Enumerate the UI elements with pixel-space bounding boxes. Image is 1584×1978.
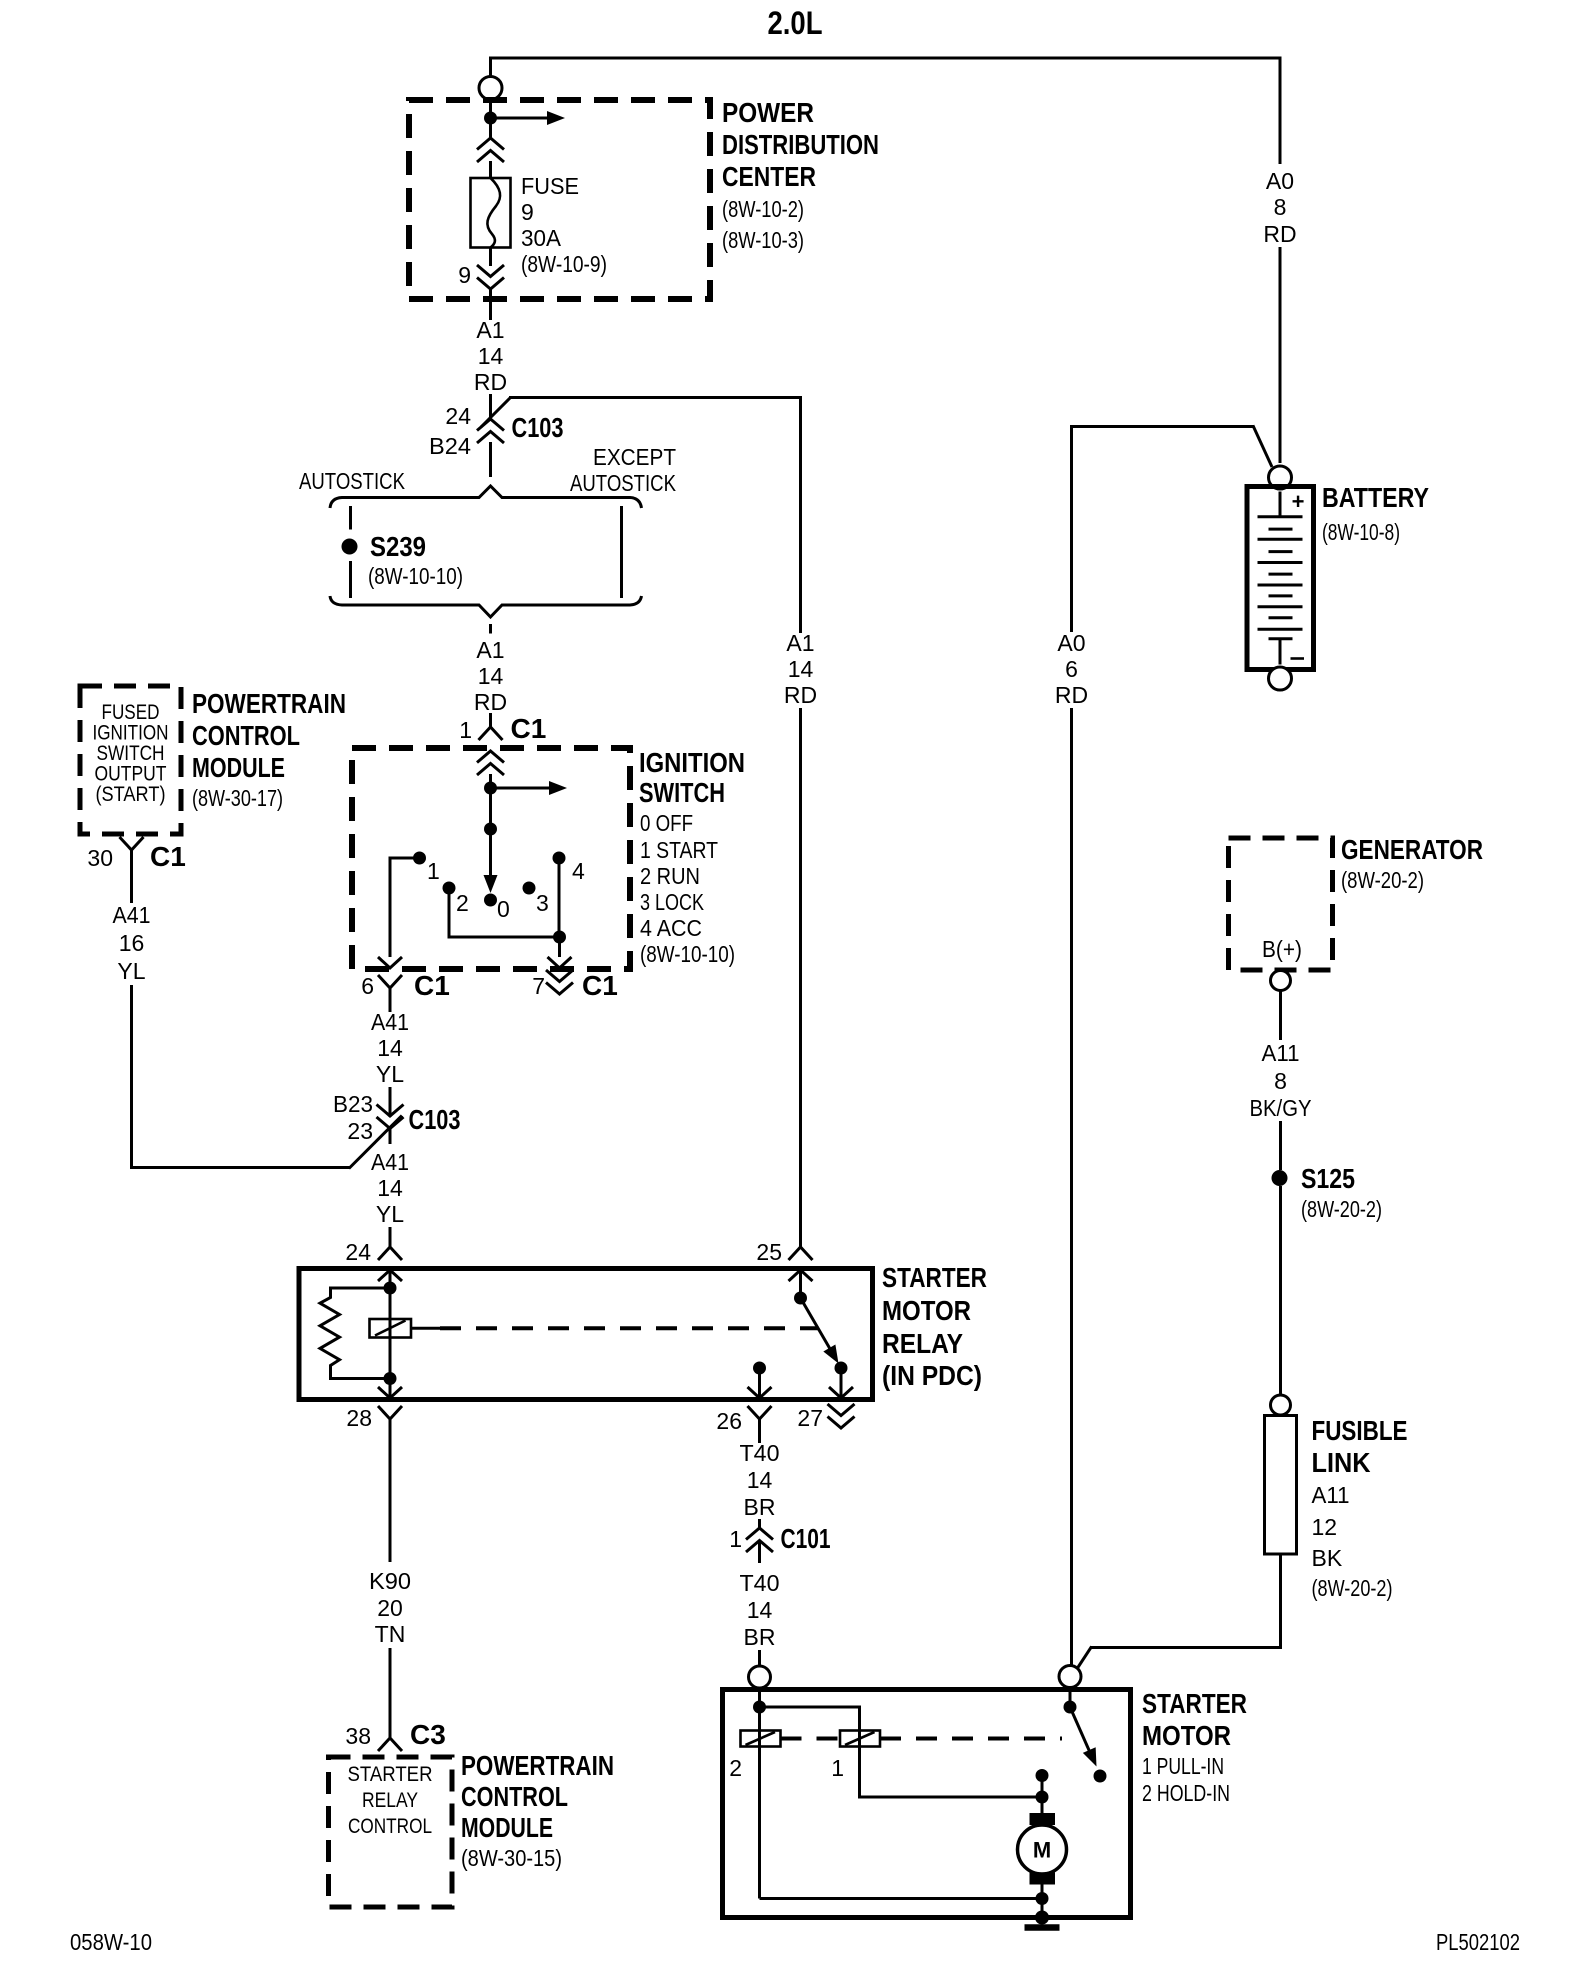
svg-text:DISTRIBUTION: DISTRIBUTION	[722, 129, 879, 160]
svg-text:A1: A1	[476, 637, 504, 663]
svg-text:C103: C103	[409, 1104, 461, 1135]
generator box	[1229, 838, 1333, 970]
wiper arrow to position 0	[489, 829, 492, 876]
svg-text:MODULE: MODULE	[461, 1812, 553, 1843]
powertrain control module (starter relay control) box	[329, 1757, 453, 1907]
svg-text:MODULE: MODULE	[192, 752, 285, 783]
svg-text:RD: RD	[1263, 221, 1296, 247]
ignition contact 4	[553, 852, 566, 865]
connector C103 pins B23/23	[377, 1117, 404, 1129]
svg-text:A41: A41	[113, 902, 151, 928]
svg-text:24: 24	[345, 1239, 371, 1265]
svg-text:2.0L: 2.0L	[768, 5, 823, 41]
svg-text:2: 2	[456, 890, 469, 916]
svg-text:14: 14	[788, 656, 814, 682]
svg-text:K90: K90	[369, 1568, 411, 1594]
svg-text:POWERTRAIN: POWERTRAIN	[461, 1750, 614, 1781]
svg-text:SWITCH: SWITCH	[639, 777, 725, 808]
fuse 9 30A	[471, 178, 511, 248]
svg-text:A41: A41	[371, 1149, 409, 1175]
wire A0 6 RD battery to starter	[1070, 425, 1254, 428]
ignition contact 2	[443, 882, 456, 895]
svg-text:CENTER: CENTER	[722, 161, 816, 192]
wire T40 14 BR upper	[758, 1433, 761, 1443]
svg-text:FUSE: FUSE	[521, 173, 579, 199]
relay pin 26 fork	[748, 1406, 772, 1419]
svg-text:26: 26	[716, 1408, 742, 1434]
svg-text:BR: BR	[744, 1494, 776, 1520]
svg-text:(START): (START)	[96, 782, 166, 806]
relay contact pin 26	[753, 1362, 766, 1375]
svg-text:(8W-10-9): (8W-10-9)	[521, 251, 607, 277]
fusible link	[1265, 1416, 1297, 1555]
solenoid dashed linkage	[781, 1737, 841, 1741]
svg-text:3 LOCK: 3 LOCK	[640, 889, 705, 915]
svg-text:14: 14	[747, 1467, 773, 1493]
battery negative terminal	[1269, 667, 1292, 690]
wire stub to ignition switch	[489, 624, 492, 634]
svg-text:16: 16	[119, 930, 145, 956]
svg-text:(8W-20-2): (8W-20-2)	[1301, 1196, 1382, 1222]
starter switch arm	[1070, 1707, 1092, 1757]
wire contact 1 to pin 6	[390, 858, 420, 957]
svg-text:PL502102: PL502102	[1436, 1929, 1520, 1955]
svg-text:CONTROL: CONTROL	[461, 1781, 568, 1812]
hold-in coil 2	[758, 1707, 761, 1899]
svg-text:C1: C1	[414, 970, 450, 1001]
powertrain control module (start output) box	[80, 686, 181, 834]
svg-text:(IN PDC): (IN PDC)	[882, 1360, 982, 1391]
pin 24 entry barb	[378, 1270, 402, 1281]
svg-text:1: 1	[427, 858, 440, 884]
svg-text:AUTOSTICK: AUTOSTICK	[570, 470, 677, 496]
svg-text:A0: A0	[1266, 168, 1294, 194]
splice S239 branch (autostick)	[349, 506, 352, 530]
starter motor relay box	[299, 1269, 873, 1400]
svg-text:B(+): B(+)	[1262, 936, 1302, 962]
svg-text:YL: YL	[376, 1201, 404, 1227]
svg-text:6: 6	[1065, 656, 1078, 682]
relay terminal fork pin 25	[799, 1233, 802, 1247]
svg-text:STARTER: STARTER	[1142, 1688, 1247, 1719]
pin 25 entry barb + switch	[789, 1270, 813, 1281]
battery positive terminal	[1269, 466, 1292, 489]
svg-text:C3: C3	[410, 1719, 446, 1750]
svg-text:+: +	[1292, 489, 1305, 514]
svg-text:TN: TN	[375, 1621, 406, 1647]
relay coil node top	[384, 1282, 397, 1295]
svg-text:B23: B23	[333, 1091, 373, 1117]
splice S125	[1272, 1170, 1288, 1186]
svg-text:(8W-10-3): (8W-10-3)	[722, 227, 804, 253]
pull-in coil 1	[840, 1731, 880, 1747]
svg-text:9: 9	[521, 199, 534, 225]
svg-text:(8W-20-2): (8W-20-2)	[1312, 1575, 1393, 1601]
svg-text:B24: B24	[429, 433, 471, 459]
svg-text:MOTOR: MOTOR	[1142, 1720, 1231, 1751]
svg-text:1 PULL-IN: 1 PULL-IN	[1142, 1753, 1224, 1779]
svg-text:STARTER: STARTER	[882, 1262, 987, 1293]
svg-text:14: 14	[478, 663, 504, 689]
connector C3 pin 38	[389, 1724, 392, 1738]
svg-text:AUTOSTICK: AUTOSTICK	[299, 468, 406, 494]
starter motor box	[723, 1690, 1131, 1918]
svg-text:4: 4	[572, 858, 585, 884]
wire inside PDC	[489, 100, 492, 140]
svg-text:RELAY: RELAY	[362, 1788, 418, 1812]
relay pin 28 fork	[378, 1406, 402, 1419]
svg-text:8: 8	[1274, 194, 1287, 220]
svg-text:A41: A41	[371, 1009, 409, 1035]
svg-text:14: 14	[747, 1597, 773, 1623]
wire top feed A0	[489, 57, 1280, 60]
svg-text:1: 1	[729, 1526, 742, 1552]
wire S125 to fusible link	[1279, 1186, 1282, 1396]
wire A11 12 BK fusible link to starter	[1279, 1554, 1282, 1648]
svg-text:(8W-30-15): (8W-30-15)	[461, 1845, 562, 1871]
motor return wire	[1036, 1892, 1049, 1905]
svg-text:A1: A1	[476, 317, 504, 343]
svg-text:27: 27	[797, 1405, 823, 1431]
svg-text:C103: C103	[512, 412, 564, 443]
svg-text:GENERATOR: GENERATOR	[1341, 834, 1483, 865]
wire (except autostick)	[620, 506, 623, 598]
svg-text:0 OFF: 0 OFF	[640, 810, 693, 836]
svg-text:C101: C101	[781, 1523, 831, 1554]
ignition switch wiper feed node + arrow	[484, 782, 497, 795]
autostick option brace (bottom)	[330, 596, 642, 617]
wire A11 8 BK/GY	[1279, 991, 1282, 1041]
starter motor M	[1041, 1797, 1044, 1813]
svg-text:2 RUN: 2 RUN	[640, 863, 700, 889]
svg-text:(8W-30-17): (8W-30-17)	[192, 785, 283, 811]
svg-text:A0: A0	[1057, 630, 1085, 656]
svg-text:A11: A11	[1262, 1040, 1300, 1066]
svg-text:BATTERY: BATTERY	[1322, 482, 1429, 513]
svg-text:4 ACC: 4 ACC	[640, 915, 702, 941]
svg-text:LINK: LINK	[1312, 1447, 1371, 1478]
svg-text:30: 30	[87, 845, 113, 871]
node junction + feed arrow inside PDC	[484, 112, 497, 125]
wire to pull-in coil	[760, 1707, 860, 1747]
svg-text:25: 25	[756, 1239, 782, 1265]
svg-text:BR: BR	[744, 1624, 776, 1650]
svg-text:14: 14	[377, 1035, 403, 1061]
connector C101 pin 1	[746, 1528, 773, 1540]
svg-text:6: 6	[361, 973, 374, 999]
svg-text:M: M	[1033, 1838, 1051, 1863]
svg-text:0: 0	[497, 896, 510, 922]
autostick option brace (top)	[330, 486, 642, 508]
relay terminal fork pin 24	[389, 1233, 392, 1247]
svg-text:(8W-10-10): (8W-10-10)	[640, 941, 735, 967]
svg-text:7: 7	[532, 973, 545, 999]
svg-text:RD: RD	[1055, 682, 1088, 708]
svg-text:23: 23	[347, 1118, 373, 1144]
svg-text:1: 1	[459, 717, 472, 743]
relay resistor (parallel)	[320, 1288, 390, 1379]
wire K90 20 TN	[389, 1433, 392, 1562]
svg-text:8: 8	[1274, 1068, 1287, 1094]
svg-text:24: 24	[445, 403, 471, 429]
svg-text:IGNITION: IGNITION	[639, 747, 745, 778]
svg-text:RD: RD	[784, 682, 817, 708]
svg-text:20: 20	[377, 1595, 403, 1621]
svg-text:14: 14	[478, 343, 504, 369]
svg-text:BK: BK	[1312, 1545, 1343, 1571]
pull-in to motor contact	[1036, 1769, 1049, 1782]
svg-text:C1: C1	[511, 713, 547, 744]
svg-text:CONTROL: CONTROL	[192, 720, 300, 751]
relay pin 27 connector chevrons	[828, 1417, 855, 1429]
svg-text:RD: RD	[474, 369, 507, 395]
svg-text:STARTER: STARTER	[348, 1762, 433, 1786]
svg-text:FUSIBLE: FUSIBLE	[1312, 1415, 1408, 1446]
wire A41 16 YL from PCM pin 30	[130, 868, 133, 903]
svg-text:S239: S239	[370, 531, 426, 562]
relay coil node bottom	[384, 1372, 397, 1385]
svg-text:14: 14	[377, 1175, 403, 1201]
wire A1 branch to starter relay pin 25	[509, 396, 801, 399]
ignition switch box	[352, 748, 630, 969]
wire contact 2/4 to pin 7	[449, 888, 560, 937]
svg-text:(8W-20-2): (8W-20-2)	[1341, 867, 1424, 893]
svg-text:T40: T40	[740, 1440, 780, 1466]
svg-text:EXCEPT: EXCEPT	[593, 444, 676, 470]
svg-text:YL: YL	[376, 1061, 404, 1087]
svg-text:(8W-10-10): (8W-10-10)	[368, 563, 463, 589]
wire A41 14 YL from ignition pin 6	[389, 1002, 392, 1012]
svg-text:(8W-10-8): (8W-10-8)	[1322, 519, 1400, 545]
svg-text:POWERTRAIN: POWERTRAIN	[192, 688, 346, 719]
svg-text:A11: A11	[1312, 1482, 1350, 1508]
svg-text:RD: RD	[474, 689, 507, 715]
svg-text:YL: YL	[117, 958, 145, 984]
svg-text:3: 3	[536, 890, 549, 916]
svg-text:058W-10: 058W-10	[70, 1929, 152, 1955]
svg-text:(8W-10-2): (8W-10-2)	[722, 196, 804, 222]
relay contact pin 27	[835, 1362, 848, 1375]
svg-text:1 START: 1 START	[640, 837, 718, 863]
connector C1 pin 6	[378, 975, 402, 988]
svg-text:CONTROL: CONTROL	[348, 1814, 432, 1838]
svg-text:S125: S125	[1301, 1163, 1355, 1194]
connector C1 pin 7	[546, 983, 573, 995]
connector C103 pins 24/B24	[481, 398, 511, 428]
svg-text:2: 2	[729, 1755, 742, 1781]
svg-text:12: 12	[1312, 1514, 1338, 1540]
connector C1 pin 30	[120, 837, 144, 850]
ignition contact 0	[484, 894, 497, 907]
svg-text:28: 28	[346, 1405, 372, 1431]
svg-text:30A: 30A	[521, 225, 562, 251]
svg-text:T40: T40	[740, 1570, 780, 1596]
ignition switch feed chevrons	[477, 751, 504, 763]
starter terminal eyelet (solenoid)	[749, 1666, 771, 1688]
ground at starter case	[1041, 1899, 1044, 1918]
relay switch arm	[801, 1298, 834, 1354]
svg-text:9: 9	[458, 262, 471, 288]
svg-text:BK/GY: BK/GY	[1250, 1095, 1312, 1121]
starter hold-in node	[758, 1690, 761, 1708]
svg-text:1: 1	[831, 1755, 844, 1781]
wire A1 14 RD from PDC	[489, 289, 492, 320]
relay actuation dashed link	[411, 1327, 440, 1330]
svg-text:MOTOR: MOTOR	[882, 1295, 971, 1326]
ignition contact 3	[523, 882, 536, 895]
starter battery terminal eyelet	[1059, 1666, 1081, 1688]
svg-text:RELAY: RELAY	[882, 1328, 963, 1359]
battery	[1247, 487, 1314, 670]
starter switch node	[1069, 1688, 1072, 1707]
svg-text:C1: C1	[582, 970, 618, 1001]
power distribution center box	[409, 100, 710, 299]
fusible link terminal	[1271, 1395, 1291, 1415]
connector terminal at PDC (eyelet)	[479, 77, 502, 100]
svg-text:38: 38	[345, 1723, 371, 1749]
generator B+ terminal	[1271, 971, 1291, 991]
connector C1 pin 1 (ignition switch)	[489, 713, 492, 727]
svg-text:A1: A1	[786, 630, 814, 656]
svg-text:C1: C1	[150, 841, 186, 872]
svg-text:2 HOLD-IN: 2 HOLD-IN	[1142, 1780, 1230, 1806]
ignition contact 1	[413, 852, 426, 865]
svg-text:POWER: POWER	[722, 97, 814, 128]
connector chevrons (bus side)	[477, 138, 504, 150]
relay coil	[389, 1288, 392, 1379]
